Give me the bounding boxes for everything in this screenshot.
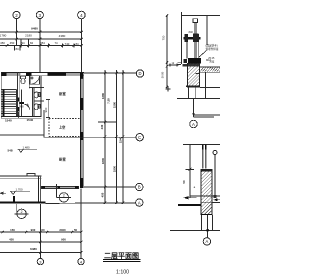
bottom dim line 3 <box>0 251 82 253</box>
svg-text:150: 150 <box>10 228 15 232</box>
svg-text:50: 50 <box>41 228 45 232</box>
long floor line <box>177 97 220 99</box>
slab insulation hatch <box>200 68 220 72</box>
window center lines <box>81 78 83 98</box>
wall black segment mid2 <box>48 73 67 76</box>
svg-text:50 80: 50 80 <box>161 71 165 78</box>
svg-text:1540: 1540 <box>119 136 123 143</box>
screed dark band over wall top <box>183 64 201 67</box>
svg-text:450: 450 <box>0 41 5 45</box>
svg-text:(固定扶手): (固定扶手) <box>206 43 218 47</box>
dark top edge <box>201 170 212 172</box>
svg-text:1800: 1800 <box>101 157 105 164</box>
plus mark <box>166 87 171 92</box>
svg-text:900: 900 <box>31 228 36 232</box>
slab left stub <box>190 195 202 197</box>
axis circle D <box>136 70 143 77</box>
bath partition wall vertical <box>29 76 34 117</box>
leader arrowhead <box>192 113 194 116</box>
below wall verticals <box>170 215 220 238</box>
handrail square <box>193 19 198 23</box>
axis circle 2 top <box>13 11 20 18</box>
hall lower wall <box>0 174 41 179</box>
svg-text:#40: #40 <box>189 30 194 34</box>
axis 3 leader <box>39 19 41 73</box>
svg-text:1.700: 1.700 <box>16 188 23 192</box>
svg-text:1800: 1800 <box>113 165 117 172</box>
level symbol 1.70 <box>10 191 30 194</box>
title underline thick <box>103 259 141 261</box>
detail marker 2 (lower) <box>15 204 29 219</box>
wall bump <box>27 174 35 177</box>
extension vertical right <box>206 16 208 46</box>
balcony railing band <box>42 186 79 188</box>
svg-text:二层平面图: 二层平面图 <box>104 251 139 260</box>
extension line axis A <box>46 202 136 205</box>
stair-side wall <box>17 72 19 116</box>
svg-text:50: 50 <box>74 228 78 232</box>
bottom axis leaders <box>40 189 81 259</box>
dim line v2 <box>116 70 118 203</box>
railing posts <box>202 145 204 169</box>
intermediate extension at void top <box>98 121 117 123</box>
left dim line <box>186 145 195 198</box>
bottom dim line 1 <box>0 231 82 233</box>
slab lines <box>199 67 220 98</box>
ticks <box>104 72 106 74</box>
thin balusters <box>186 34 188 59</box>
stair stringer black bar <box>3 90 5 117</box>
leader vertical <box>193 98 195 117</box>
window in top wall left <box>7 73 21 75</box>
bath partition horizontal 1 <box>29 87 44 89</box>
bottom-left exterior wall (black) <box>0 202 46 204</box>
stall toilet 1 <box>34 92 40 98</box>
door cross mark <box>26 104 29 107</box>
rail pipe anchor block <box>214 195 217 198</box>
dim line 1 <box>0 31 82 33</box>
axis circle 4 top <box>78 11 86 19</box>
axis circle 3 bottom <box>37 258 43 264</box>
wall-bottom level line right <box>200 87 220 89</box>
short extension stubs below line3 <box>20 39 22 48</box>
axis 2 leader <box>16 19 18 46</box>
slab right lines <box>212 196 220 202</box>
svg-text:548: 548 <box>8 149 13 153</box>
parapet wall hatched (continuous) <box>201 170 212 215</box>
svg-text:6480: 6480 <box>30 247 37 251</box>
svg-text:2: 2 <box>21 210 23 214</box>
wall black segment mid <box>26 72 32 76</box>
svg-text:84: 84 <box>15 47 19 51</box>
svg-text:900: 900 <box>61 238 66 242</box>
handrail circle <box>213 151 217 155</box>
extension line axis C <box>44 136 136 138</box>
svg-text:1:100: 1:100 <box>116 270 129 276</box>
axis circle A <box>136 199 143 206</box>
railing post <box>194 23 196 59</box>
bottom dim line 2 <box>0 241 82 243</box>
dim line v3 <box>122 70 124 203</box>
drip step line <box>196 72 201 74</box>
leader horizontals <box>194 114 221 116</box>
svg-text:B: B <box>138 185 141 190</box>
toilet 1 (top) <box>21 76 26 84</box>
extension line axis D <box>84 72 136 74</box>
axis circle 4 bottom <box>78 258 84 264</box>
wall corner stub <box>13 196 15 203</box>
svg-text:30厚: 30厚 <box>209 60 215 64</box>
slab left bottom thick <box>178 204 201 206</box>
stair arrow <box>17 112 19 118</box>
black segment <box>80 98 83 110</box>
bottom ticks <box>2 231 83 254</box>
svg-text:卧室: 卧室 <box>59 91 66 96</box>
wall bottom dark edge <box>186 86 200 88</box>
svg-text:1580: 1580 <box>113 101 117 108</box>
dim line v1 <box>104 70 106 203</box>
wall below lines <box>177 87 220 117</box>
svg-text:预埋件焊接: 预埋件焊接 <box>206 47 219 51</box>
rotated dim texts <box>100 92 123 197</box>
stall toilet 2 <box>34 104 40 110</box>
svg-text:卧室: 卧室 <box>59 157 66 162</box>
svg-text:1380: 1380 <box>101 92 105 99</box>
door M8 swing arc <box>24 104 30 110</box>
level symbol 1.48 <box>17 149 37 152</box>
leader to post <box>199 51 207 58</box>
stair flight <box>1 90 22 117</box>
slab lines across wall <box>201 195 212 197</box>
svg-text:M8: M8 <box>20 105 24 109</box>
svg-text:430: 430 <box>100 124 104 129</box>
small dim over base plate <box>169 64 179 67</box>
bath partition horizontal 2 <box>34 100 45 102</box>
left pointing arrow at level <box>0 192 6 194</box>
axis circle C <box>136 134 143 141</box>
svg-text:84: 84 <box>30 41 34 45</box>
right exterior wall <box>80 72 83 188</box>
ground line <box>170 229 220 231</box>
top exterior wall <box>1 72 84 76</box>
toilet block right wall <box>40 76 42 117</box>
dim line 3 <box>0 45 82 47</box>
interior dim 900 <box>46 100 50 118</box>
wall black segment left <box>1 72 7 76</box>
svg-text:1.480: 1.480 <box>23 146 30 150</box>
shower corner <box>30 76 39 85</box>
axis circle B <box>136 183 143 190</box>
arrow at slab <box>184 197 197 199</box>
beam line left of void <box>0 134 44 136</box>
svg-text:900: 900 <box>44 107 48 112</box>
svg-text:7.58: 7.58 <box>107 98 111 104</box>
detail dim line <box>166 16 168 88</box>
svg-text:50: 50 <box>182 180 186 184</box>
svg-text:1540: 1540 <box>5 119 12 123</box>
svg-text:450: 450 <box>101 192 105 197</box>
svg-text:A: A <box>205 239 208 244</box>
svg-text:A: A <box>138 200 141 205</box>
svg-text:9480: 9480 <box>31 26 38 30</box>
detail top extension line <box>182 15 221 17</box>
svg-text:750: 750 <box>162 35 166 40</box>
extension ticks <box>16 31 19 33</box>
svg-text:D: D <box>138 71 141 76</box>
extension vertical left of railing <box>181 12 183 64</box>
extension line axis B <box>84 186 136 188</box>
wall bottom thick <box>201 213 213 215</box>
svg-text:450: 450 <box>9 238 14 242</box>
svg-text:A: A <box>192 122 195 127</box>
svg-text:2: 2 <box>63 193 65 197</box>
svg-text:74: 74 <box>54 41 58 45</box>
door M8 leaf <box>20 102 24 104</box>
bath block bottom wall <box>1 117 42 119</box>
svg-text:1780: 1780 <box>0 33 7 37</box>
svg-text:上空: 上空 <box>59 125 66 130</box>
center dot <box>206 229 209 232</box>
top extension line <box>183 144 220 146</box>
svg-text:2400: 2400 <box>59 228 66 232</box>
window in top wall right <box>66 73 81 75</box>
beam stub vertical <box>43 110 45 138</box>
svg-text:2180: 2180 <box>25 33 32 37</box>
wall black corner right <box>80 72 83 76</box>
svg-text:C: C <box>138 135 141 140</box>
wall black segment <box>17 98 19 102</box>
svg-text:25 25: 25 25 <box>208 57 215 60</box>
axis 4 leader <box>80 19 82 73</box>
hall right wall vertical <box>39 176 41 203</box>
left exterior wall <box>0 72 2 118</box>
svg-text:4380: 4380 <box>59 34 66 38</box>
title underline thin <box>103 260 141 262</box>
rail pipe <box>214 155 216 197</box>
stair wall pier <box>17 107 19 112</box>
mid rail <box>184 37 201 40</box>
dim line 2 <box>0 38 82 40</box>
svg-text:1540: 1540 <box>27 118 34 122</box>
detail A circle bottom <box>203 238 210 245</box>
detail marker 2 (balcony) <box>56 184 70 202</box>
svg-text:450: 450 <box>10 41 15 45</box>
small equal ticks <box>178 62 181 64</box>
detail A circle top <box>190 120 198 128</box>
parapet wall hatched <box>188 64 200 88</box>
slab right arrow <box>214 199 221 201</box>
anchor washer <box>184 59 187 63</box>
base plate <box>188 58 201 64</box>
axis circle 3 top <box>36 11 43 18</box>
void dashed rectangle <box>49 119 81 137</box>
